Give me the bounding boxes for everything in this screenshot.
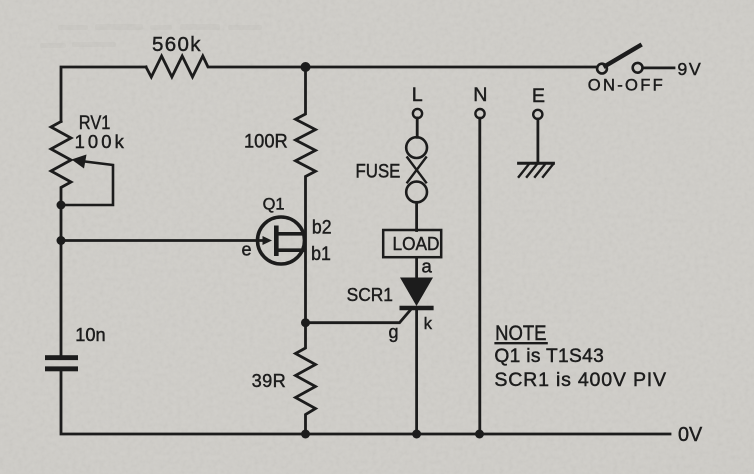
svg-text:E: E bbox=[532, 85, 545, 107]
svg-text:100R: 100R bbox=[244, 131, 288, 153]
svg-text:e: e bbox=[242, 240, 252, 260]
svg-text:a: a bbox=[422, 256, 433, 277]
svg-text:9V: 9V bbox=[677, 59, 700, 79]
svg-text:Q1 is T1S43: Q1 is T1S43 bbox=[494, 346, 603, 367]
svg-text:b1: b1 bbox=[311, 243, 331, 265]
svg-text:SCR1: SCR1 bbox=[347, 284, 393, 305]
svg-text:SCR1 is 400V PIV: SCR1 is 400V PIV bbox=[494, 369, 666, 391]
svg-text:g: g bbox=[389, 322, 399, 342]
svg-text:LOAD: LOAD bbox=[393, 233, 440, 254]
svg-text:L: L bbox=[412, 84, 423, 106]
svg-text:0V: 0V bbox=[678, 424, 703, 446]
svg-text:39R: 39R bbox=[252, 371, 286, 391]
svg-text:N: N bbox=[473, 84, 487, 106]
svg-text:560k: 560k bbox=[152, 33, 201, 56]
svg-text:FUSE: FUSE bbox=[356, 161, 401, 183]
svg-text:10n: 10n bbox=[75, 324, 105, 345]
svg-text:k: k bbox=[424, 315, 433, 333]
svg-text:NOTE: NOTE bbox=[495, 322, 546, 345]
svg-text:b2: b2 bbox=[312, 217, 332, 239]
svg-text:Q1: Q1 bbox=[263, 195, 285, 214]
